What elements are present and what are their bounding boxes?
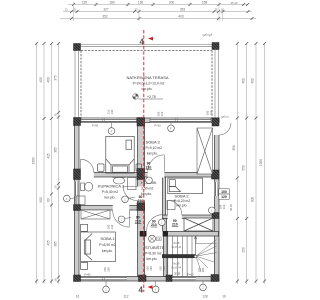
column bottom wall mid: [139, 275, 147, 282]
window bottom-left: [80, 277, 127, 281]
svg-text:P=6,20 m2: P=6,20 m2: [174, 199, 191, 203]
sink bathroom: [113, 177, 126, 184]
ventilation circle cross: [149, 235, 162, 242]
svg-text:400: 400: [39, 77, 43, 83]
level mark terrace: [133, 94, 163, 100]
column top wall left: [74, 118, 81, 126]
svg-text:240: 240: [110, 109, 114, 114]
column terrace top-left: [74, 44, 81, 51]
svg-text:200: 200: [157, 111, 161, 116]
svg-text:190: 190: [106, 267, 110, 272]
svg-text:P=24,0+1,2=12,0 m2: P=24,0+1,2=12,0 m2: [133, 82, 165, 86]
stair flight label lower: [172, 262, 182, 270]
bottom dimension labels: [76, 295, 226, 299]
svg-text:P=8,90 m2: P=8,90 m2: [99, 243, 116, 247]
svg-text:4: 4: [139, 286, 144, 295]
door gap bedroom1: [80, 172, 94, 178]
stair walk line: [194, 237, 197, 258]
column stair door jamb right: [163, 231, 168, 237]
svg-text:365: 365: [54, 241, 58, 247]
window label 200/210 above top wall right: [206, 110, 214, 115]
door gap right wall (terrace door): [214, 123, 220, 135]
svg-text:10: 10: [65, 8, 68, 12]
svg-text:25,10: 25,10: [231, 1, 238, 5]
svg-text:60: 60: [177, 272, 181, 275]
top dimension ticks row1: [72, 3, 249, 6]
svg-text:550: 550: [241, 165, 245, 171]
svg-text:210: 210: [209, 110, 213, 115]
bed soba1: [81, 232, 116, 262]
svg-text:190: 190: [162, 266, 166, 271]
shower bathroom: [76, 196, 85, 205]
svg-text:40,20: 40,20: [229, 204, 233, 211]
svg-text:900: 900: [251, 197, 255, 203]
terrace dashed inner boundary: [81, 51, 212, 119]
svg-text:ker.plo.: ker.plo.: [177, 204, 188, 208]
marker circle F left window: [108, 123, 115, 135]
svg-text:425: 425: [47, 240, 51, 246]
svg-text:KUPAONICA 2: KUPAONICA 2: [98, 184, 125, 189]
bed bedroom top: [106, 136, 134, 173]
svg-text:60: 60: [174, 272, 178, 275]
svg-text:403: 403: [178, 15, 184, 19]
interior wall D (soba2 bottom): [163, 215, 215, 219]
room label soba2: [174, 194, 191, 208]
svg-text:136: 136: [138, 1, 144, 5]
svg-text:16: 16: [222, 295, 226, 299]
svg-text:180: 180: [109, 1, 115, 5]
nightstand left (top bedroom): [98, 164, 105, 171]
svg-text:400: 400: [251, 78, 255, 84]
svg-text:25: 25: [135, 8, 138, 12]
door gap soba1: [113, 205, 130, 211]
svg-text:ker.plo.: ker.plo.: [147, 152, 158, 156]
marker circle bottom window 1: [103, 281, 110, 293]
svg-text:125: 125: [82, 1, 88, 5]
marker circle bathroom door: [122, 196, 135, 203]
marker circle T mid wall: [146, 177, 153, 184]
top dimension labels: [65, 1, 238, 19]
door label 90/210 stairs: [172, 219, 179, 227]
door arc soba3: [148, 155, 165, 172]
door gap stairs: [147, 231, 163, 237]
svg-text:327: 327: [103, 8, 109, 12]
left dimension ticks: [35, 42, 60, 283]
svg-text:P=60: P=60: [187, 273, 194, 277]
exterior bottom wall: [75, 277, 220, 282]
marker circle soba2 door: [159, 219, 166, 226]
column mid wall centre: [137, 169, 145, 180]
room label terrace: [126, 75, 168, 91]
door size label 90/210 soba3: [146, 162, 153, 170]
svg-text:25: 25: [54, 185, 58, 188]
svg-text:158: 158: [202, 1, 208, 5]
svg-text:100: 100: [221, 190, 227, 194]
window box label 100/120 right wall: [219, 189, 230, 199]
svg-text:1300: 1300: [32, 157, 36, 164]
svg-text:250: 250: [241, 247, 245, 253]
bed soba2: [168, 178, 203, 194]
svg-text:P+90: P+90: [154, 124, 161, 128]
svg-text:130: 130: [110, 224, 114, 229]
wc bathroom: [81, 182, 93, 191]
window label 200/210 above top wall mid: [157, 111, 165, 116]
door arc terrace door right wall (swings out): [219, 123, 231, 135]
door arc bedroom1: [81, 159, 94, 172]
svg-text:210: 210: [151, 223, 157, 227]
svg-text:P=80: P=80: [84, 272, 91, 276]
svg-text:9x17,44: 9x17,44: [172, 245, 182, 249]
top dimension ticks row2: [70, 10, 250, 13]
room label soba1: [99, 236, 116, 253]
column bottom wall stair: [166, 275, 172, 282]
svg-text:P+90: P+90: [92, 124, 99, 128]
interior wall E (stair top): [140, 232, 219, 237]
column bottom wall right: [211, 275, 219, 282]
closet X soba1: [81, 210, 110, 219]
svg-text:210: 210: [107, 109, 111, 114]
svg-text:P=9,10 m2: P=9,10 m2: [146, 146, 163, 150]
column wall C left: [74, 205, 81, 211]
room label soba3: [146, 140, 163, 156]
room label kupaonica2: [98, 184, 125, 200]
stair risers: [168, 236, 192, 277]
svg-text:P=5,40 m2: P=5,40 m2: [102, 190, 119, 194]
interior wall C (y205): [75, 206, 145, 211]
svg-text:16: 16: [54, 278, 58, 281]
svg-text:8x28: 8x28: [174, 262, 180, 266]
window top-left: [81, 118, 137, 122]
svg-text:ker.plo.: ker.plo.: [105, 196, 116, 200]
svg-text:128: 128: [202, 295, 208, 299]
column mid wall left: [74, 169, 81, 180]
exterior left wall: [75, 118, 80, 281]
svg-text:112: 112: [123, 295, 128, 299]
marker circle soba1 door: [118, 216, 131, 223]
svg-text:210: 210: [138, 199, 144, 203]
svg-text:400: 400: [241, 78, 245, 84]
top dimension ticks row3: [70, 17, 254, 20]
door arc soba1: [113, 211, 130, 228]
interior wall A/B (y173): [75, 173, 215, 178]
window label 210/240 above top wall left: [107, 109, 115, 114]
right dimension ticks: [236, 42, 266, 283]
nightstand below (soba1): [81, 262, 88, 269]
svg-text:375: 375: [54, 75, 58, 81]
svg-text:365: 365: [54, 147, 58, 153]
door arc soba2: [168, 201, 182, 215]
svg-text:SOBA 2: SOBA 2: [174, 194, 189, 199]
svg-text:210: 210: [172, 223, 178, 227]
column bottom wall left: [74, 275, 81, 282]
svg-text:NATKRIVENA TERASA: NATKRIVENA TERASA: [126, 75, 168, 80]
svg-text:16: 16: [76, 295, 80, 299]
svg-text:210: 210: [135, 219, 141, 223]
section line 4-4 (red dashed): [139, 30, 154, 295]
nightstand soba2: [167, 201, 175, 210]
right dimension lines: [237, 44, 264, 285]
door label 90/210 soba1: [135, 216, 142, 224]
door gap bathroom (vertical wall): [137, 187, 145, 201]
svg-text:STUBIŠTE: STUBIŠTE: [145, 245, 165, 250]
wall F vertical (hall/strip): [163, 219, 167, 232]
marker circle bottom window 2: [152, 281, 159, 293]
door gap soba2: [168, 214, 182, 219]
window bottom-right: [172, 277, 197, 281]
svg-text:900: 900: [39, 197, 43, 203]
marker circle left wall window: [64, 195, 75, 202]
nightstand right (top bedroom): [136, 164, 142, 171]
svg-text:120: 120: [221, 195, 227, 199]
svg-text:10: 10: [221, 8, 224, 12]
svg-text:200: 200: [169, 1, 175, 5]
svg-text:210: 210: [146, 165, 152, 169]
window label 100/190 soba1: [103, 267, 110, 272]
wall H stair left: [164, 236, 168, 277]
window labels near bottom mid: [146, 266, 166, 271]
svg-text:1300: 1300: [259, 159, 263, 166]
svg-text:210: 210: [222, 204, 226, 209]
stair divider wall: [162, 254, 196, 258]
washing machine bathroom: [128, 178, 137, 190]
column stair door jamb left: [140, 231, 147, 237]
middle vertical wall: [138, 118, 145, 277]
wardrobe X soba3: [197, 128, 213, 174]
svg-text:okr.plo.: okr.plo.: [142, 87, 153, 91]
top dimension line row 1: [60, 5, 256, 19]
svg-text:25: 25: [54, 113, 58, 116]
dimension extension lines top: [74, 2, 223, 21]
column terrace top-right: [212, 43, 219, 50]
svg-text:ker.plo.: ker.plo.: [141, 192, 152, 196]
window top-right: [150, 118, 211, 122]
window labels bottom right: [174, 267, 205, 276]
door gap soba3: [148, 172, 165, 178]
room label stubiste: [145, 245, 165, 261]
stair winder fan: [196, 236, 217, 272]
house top wall (terrace side): [75, 118, 220, 123]
exterior right wall: [215, 118, 220, 281]
door label 80/210 bathroom: [138, 195, 145, 203]
svg-text:25: 25: [215, 8, 218, 12]
svg-text:+2,78: +2,78: [147, 95, 156, 99]
marker circle bottom window 3: [200, 281, 207, 291]
svg-text:210: 210: [160, 111, 164, 116]
stair flight label upper: [172, 241, 182, 249]
small dim marks above terrace top-right: [202, 34, 212, 37]
small dim line right of wall top: [221, 116, 229, 119]
room label hodnik: [141, 180, 157, 196]
nightstand above (soba1): [81, 224, 88, 231]
column top wall mid: [137, 118, 145, 127]
svg-text:60: 60: [47, 198, 51, 202]
window left wall (bathroom): [75, 182, 79, 197]
marker circle right wall soba2: [209, 204, 226, 213]
svg-text:9x17,44: 9x17,44: [172, 266, 182, 270]
column right wall at wall D: [212, 213, 219, 219]
svg-text:8x28: 8x28: [174, 241, 180, 245]
column wall C centre: [137, 203, 145, 211]
left dimension labels (rotated): [32, 75, 58, 281]
svg-text:P=8,30 m2: P=8,30 m2: [145, 252, 162, 256]
svg-text:400: 400: [47, 77, 51, 83]
svg-text:ker.plo.: ker.plo.: [102, 249, 113, 253]
window label bed soba1 side: [107, 224, 114, 229]
svg-text:190: 190: [149, 266, 153, 271]
column mid wall right: [212, 170, 220, 179]
column top wall right: [212, 118, 219, 126]
svg-text:4: 4: [140, 38, 145, 47]
svg-text:260: 260: [201, 267, 205, 272]
svg-text:415: 415: [47, 153, 51, 159]
marker circle F right window: [168, 123, 175, 132]
svg-text:353: 353: [180, 8, 186, 12]
svg-text:SOBA 3: SOBA 3: [146, 140, 161, 145]
door label 90/210 soba2: [151, 219, 158, 227]
svg-text:352: 352: [102, 15, 108, 19]
stair upper flight X box: [184, 218, 213, 231]
left dimension lines: [37, 44, 59, 285]
door arc bathroom: [123, 187, 137, 201]
svg-text:SOBA 1: SOBA 1: [100, 236, 115, 241]
svg-text:3,50 m2: 3,50 m2: [141, 187, 153, 191]
wall hodnik/soba2 vertical: [163, 177, 166, 215]
door arc stairs: [147, 215, 163, 231]
terrace outline top edge: [75, 45, 219, 118]
svg-text:350: 350: [232, 145, 236, 151]
svg-text:ker.plo.: ker.plo.: [147, 257, 158, 261]
window right wall: [215, 182, 219, 196]
right dimension labels (rotated): [229, 78, 263, 253]
svg-text:16: 16: [157, 237, 160, 241]
svg-text:200: 200: [206, 110, 210, 115]
